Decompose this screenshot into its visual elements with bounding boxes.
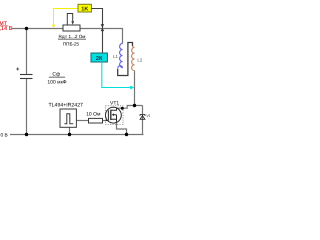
svg-text:VT1: VT1 xyxy=(110,100,119,106)
svg-text:,14 В: ,14 В xyxy=(0,26,13,32)
svg-text:Сф: Сф xyxy=(52,71,60,77)
svg-text:1K: 1K xyxy=(81,6,88,12)
svg-text:L2: L2 xyxy=(137,58,142,63)
svg-text:ППБ-25: ППБ-25 xyxy=(63,42,80,47)
svg-text:VD: VD xyxy=(146,114,150,118)
svg-text:L1: L1 xyxy=(113,54,118,59)
svg-text:2К: 2К xyxy=(96,56,103,62)
svg-text:0 В: 0 В xyxy=(1,132,8,138)
svg-text:Rд= 1...2 Ом: Rд= 1...2 Ом xyxy=(59,34,86,39)
svg-text:10 Ом: 10 Ом xyxy=(86,111,101,117)
svg-text:100 мкФ: 100 мкФ xyxy=(47,80,66,86)
svg-text:TL494+IR2427: TL494+IR2427 xyxy=(49,102,84,108)
